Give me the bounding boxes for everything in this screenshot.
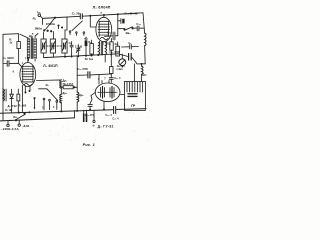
wire corner drop x42.5 — [42, 18, 44, 24]
svg-text:С₁₇: С₁₇ — [136, 22, 141, 26]
wire C4 drop — [65, 17, 67, 30]
capacitor C10 — [128, 54, 130, 61]
tube L2 side rails — [98, 21, 100, 36]
terminal mains a — [7, 124, 9, 126]
svg-text:+8,1В: +8,1В — [22, 124, 29, 128]
capacitor C8 electrolytic — [85, 37, 87, 40]
resistor R1 — [17, 42, 21, 49]
capacitor C20 with lead — [90, 92, 96, 104]
wire left frame vertical — [2, 34, 4, 121]
left frame winding — [3, 89, 5, 101]
switch S3 arm — [72, 21, 82, 31]
svg-text:Вк₂: Вк₂ — [126, 31, 132, 35]
wire L4 to speaker — [120, 94, 125, 96]
switch Vk2 arm — [125, 27, 133, 31]
svg-text:Др₁: Др₁ — [29, 34, 35, 38]
svg-text:С₂₁ 4: С₂₁ 4 — [112, 117, 119, 121]
speaker block capacitor — [128, 93, 137, 95]
switch Vk1 — [16, 115, 25, 120]
svg-text:Тр₂: Тр₂ — [107, 42, 111, 46]
variable capacitor C4 section — [62, 39, 67, 53]
svg-text:С₉: С₉ — [128, 41, 131, 45]
choke Dr6 mid right — [141, 64, 143, 66]
tube L1 side rails — [22, 66, 24, 82]
svg-text:С₇2-15: С₇2-15 — [75, 47, 83, 49]
tube L1 bottom pins — [21, 85, 23, 112]
capacitor C6 — [71, 42, 73, 46]
svg-text:С₁₀ 4700: С₁₀ 4700 — [109, 50, 120, 54]
svg-text:~220В-0,5А: ~220В-0,5А — [1, 127, 20, 131]
jack Gn1 — [38, 14, 41, 17]
transformer Dr1 left winding — [27, 39, 30, 59]
wire mid bus — [44, 54, 118, 58]
capacitor C15 electrolytic — [118, 20, 121, 22]
tube L2 grids — [99, 23, 110, 25]
svg-text:С₅ 28: С₅ 28 — [72, 12, 80, 16]
wire bottom bus2 — [0, 118, 75, 121]
terminal b out — [93, 120, 95, 122]
svg-text:С₁₅ В+48: С₁₅ В+48 — [124, 12, 137, 16]
wire B AF coupling — [77, 74, 87, 76]
wire top bus — [43, 16, 80, 18]
svg-text:С₁ 4000: С₁ 4000 — [3, 56, 14, 60]
svg-text:С₂₀ 470: С₂₀ 470 — [85, 113, 95, 117]
svg-text:Др₃: Др₃ — [62, 91, 67, 95]
capacitor C21 series plates — [113, 107, 115, 114]
meter M1 — [119, 59, 126, 66]
tube L1 grids — [23, 65, 33, 67]
svg-text:Л₂ 6Л04П: Л₂ 6Л04П — [93, 6, 111, 10]
capacitor C7 trimmer — [77, 45, 79, 49]
diode D1 — [11, 89, 13, 94]
svg-text:R₃ 560: R₃ 560 — [19, 105, 27, 108]
capacitor C1 — [3, 63, 7, 65]
terminal mains b — [18, 124, 20, 126]
svg-text:Др₂: Др₂ — [142, 73, 147, 77]
variable capacitor C2 section — [41, 39, 46, 53]
svg-text:1,4мА: 1,4мА — [116, 68, 123, 71]
tube L4 envelope — [95, 83, 120, 102]
IF transformer Tr2 core — [100, 42, 102, 55]
choke Dr4 vertical — [76, 56, 78, 92]
junction dots — [54, 17, 55, 18]
svg-text:Л₁ 6И1П: Л₁ 6И1П — [43, 64, 58, 68]
capacitor C9 — [122, 46, 130, 48]
IF transformer Tr2 left winding — [98, 43, 99, 55]
svg-text:Гн₁: Гн₁ — [37, 10, 41, 14]
speaker block Gr outer — [125, 82, 146, 111]
wire tube L2 top pin — [103, 15, 105, 17]
capacitor C12 — [87, 72, 89, 78]
svg-text:Др₂: Др₂ — [63, 79, 68, 83]
resistor R3 — [17, 89, 19, 94]
wire mid bus right extension — [118, 54, 128, 57]
wire bottom bus1 — [0, 110, 113, 114]
capacitor C17 — [136, 26, 138, 31]
switch S2 contacts — [43, 98, 45, 100]
fuse Pr1 — [63, 86, 73, 89]
node dots switch S1 contacts — [44, 30, 45, 31]
transformer Dr1 right winding — [34, 39, 37, 59]
tube L4 bottom pin — [103, 102, 105, 109]
variable capacitor C3 section — [50, 39, 55, 53]
choke Dr2a vertical — [60, 80, 62, 88]
svg-text:Пр₁0,25А: Пр₁0,25А — [63, 83, 74, 86]
paper background — [0, 0, 150, 150]
switch S2 arm — [47, 89, 58, 101]
capacitor C16 — [105, 35, 113, 37]
resistor R5 — [91, 40, 93, 44]
svg-text:R₉ 22к: R₉ 22к — [117, 64, 126, 68]
svg-text:Рис. 1: Рис. 1 — [83, 143, 95, 147]
capacitor C19 electrolytics — [83, 113, 85, 122]
svg-text:R₄: R₄ — [33, 17, 37, 21]
svg-text:R₂ 1М: R₂ 1М — [5, 109, 12, 112]
switch S1 arm top-left — [46, 18, 56, 30]
svg-text:Вк₁: Вк₁ — [13, 115, 17, 119]
transformer Dr1 leads — [20, 34, 29, 38]
scan speckle noise — [1, 5, 150, 140]
svg-text:Д₂ ГУ-32: Д₂ ГУ-32 — [98, 124, 114, 128]
tube L2 pins — [99, 41, 101, 46]
capacitor C13 — [110, 74, 112, 77]
svg-text:Вс 7вк: Вс 7вк — [85, 57, 94, 61]
svg-text:Др₄: Др₄ — [79, 93, 84, 97]
svg-text:б: б — [93, 124, 95, 128]
svg-text:С₁₃ 4: С₁₃ 4 — [114, 76, 121, 80]
svg-text:Д₁ 7ГЕ2: Д₁ 7ГЕ2 — [8, 105, 18, 108]
tube L1 envelope — [20, 63, 36, 87]
gang link dashed — [46, 45, 62, 47]
tube L1 top pin — [27, 57, 29, 62]
resistor R7 — [111, 39, 113, 42]
choke Dr3a winding — [60, 88, 62, 95]
svg-text:С₁₂ 4700: С₁₂ 4700 — [77, 67, 88, 71]
resistor R9 — [110, 54, 112, 66]
tube L2 envelope — [96, 17, 112, 41]
wire left frame top edge — [3, 33, 19, 36]
choke Dr5 top right — [145, 33, 147, 46]
tube L4 electrodes — [100, 88, 102, 98]
wire Vk2 row — [118, 28, 125, 30]
speaker block winding hatch — [126, 82, 128, 92]
tube L2 anode — [99, 20, 108, 22]
switch S2 feed wire — [39, 88, 47, 90]
wire right drop x117.8 — [117, 14, 119, 36]
tube L4 top pins — [101, 81, 103, 84]
wire L1 anode to Dr2 — [37, 79, 62, 82]
node dots band contacts — [58, 25, 59, 26]
svg-text:С₂₂ 4: С₂₂ 4 — [105, 113, 112, 117]
resistor R8 — [117, 42, 119, 46]
wire to L4 grid — [98, 75, 100, 85]
svg-text:470кОм: 470кОм — [46, 23, 55, 26]
capacitor C5 series plates in bus — [79, 14, 81, 19]
wire right edge top drop — [143, 13, 145, 33]
transformer Dr1 core — [31, 38, 33, 59]
wire OT primary feed — [133, 64, 135, 82]
svg-text:2МОм: 2МОм — [35, 28, 42, 31]
IF transformer Tr2 right winding — [105, 43, 106, 55]
svg-text:+С₈: +С₈ — [84, 36, 89, 40]
wire tube L2 grid drop — [90, 16, 96, 27]
